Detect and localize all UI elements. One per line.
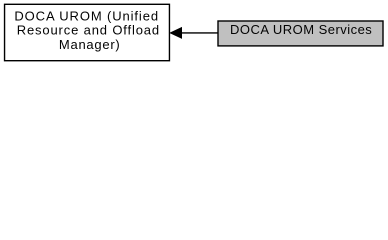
svg-text:Resource and Offload: Resource and Offload (17, 23, 160, 38)
svg-text:Manager): Manager) (59, 37, 120, 52)
svg-text:DOCA UROM (Unified: DOCA UROM (Unified (14, 9, 158, 24)
arrowhead pointing left at left box (170, 28, 181, 38)
node box: DOCA UROM (Unified Resource and Offload Manager) (5, 4, 170, 60)
wire: edge shaft from right box to arrowhead (181, 32, 218, 34)
node box: DOCA UROM Services (218, 21, 383, 46)
svg-text:DOCA UROM Services: DOCA UROM Services (230, 22, 372, 37)
